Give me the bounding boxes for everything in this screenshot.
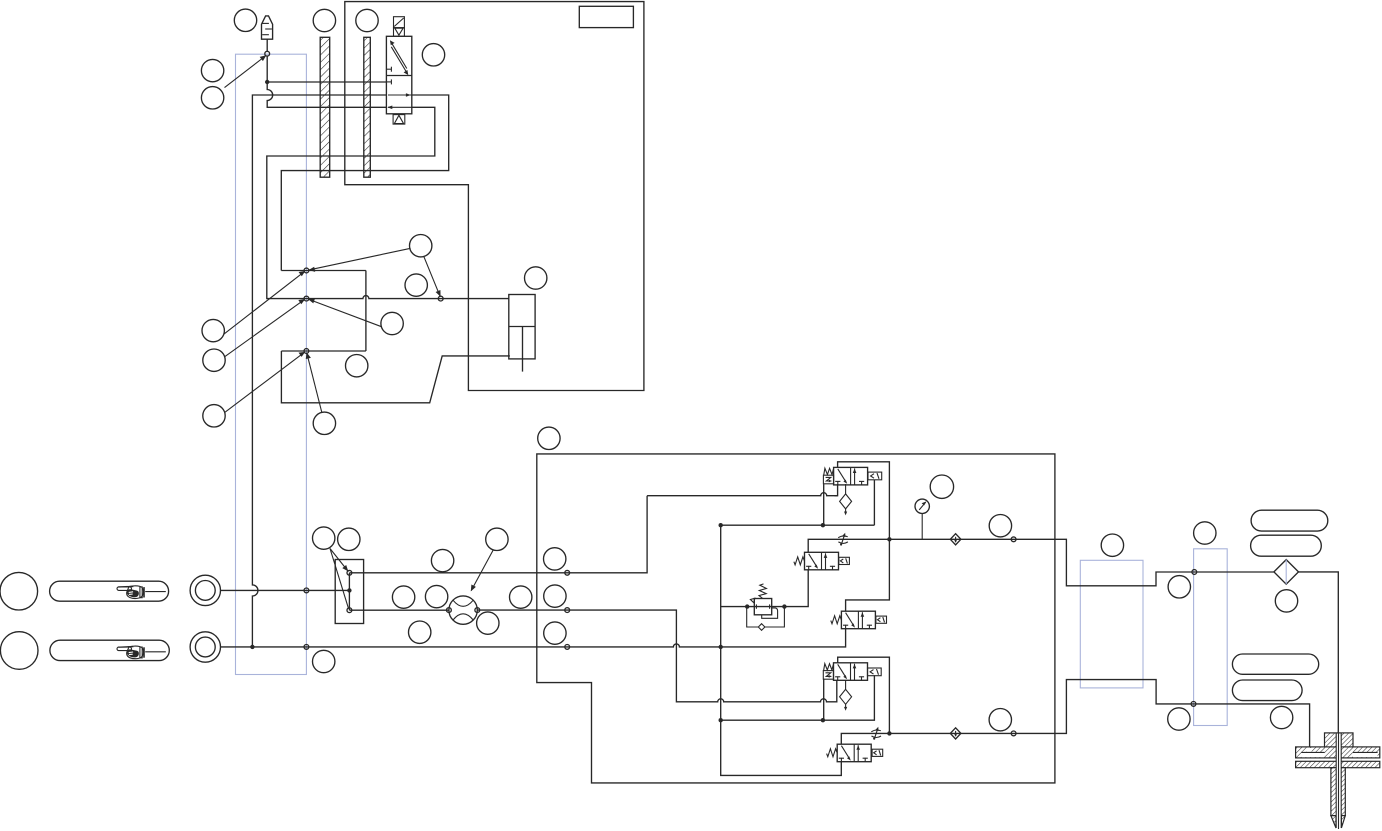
balloon C2 [338,528,360,550]
hand pointer line row2 [145,651,166,653]
wire rowB: HV1 bottom to rotary joint [349,609,449,611]
throttle T1 [838,533,848,546]
hand icon row1 [117,586,145,599]
wire row3: ring P2 to valve V3 port (with jump, junction dots) [221,629,846,647]
tool flange plate [1296,747,1380,758]
balloon E1 entry rowA [544,548,566,570]
wire: pilot bus lower y720 [721,675,875,720]
leader: balloon L2 to node n3 [225,300,304,357]
balloon E2 entry rowB [544,585,566,607]
wire: valve V1 spring-box drop [823,484,825,525]
leader: balloon B5 to node n4 [307,353,322,413]
balloon B2 [405,274,427,296]
balloon C5 [392,586,414,608]
valve V3 [841,611,875,629]
balloon C9 [409,621,431,643]
leader: balloon B3 to node n3 [309,299,382,326]
node n4 on ledge y351 [304,349,309,354]
wire: U1 out right y107 loop to cylinder line [267,107,509,298]
balloon C7 [510,586,532,608]
pill mid1 [1232,654,1318,674]
valve V5 feed wire with throttle [841,733,889,744]
node HV1 bottom [347,608,352,613]
junction dot y720 mid [821,718,825,722]
wire: V1 top to bus [838,462,890,611]
check diamond D2 on wire B [950,728,961,739]
balloon right frame top [1194,522,1216,544]
bulkhead bar 1 (hatched) [320,37,330,177]
label plate rectangle top-right [579,6,633,27]
junction dot row3/block riser [719,645,723,649]
wire: port line y82 to valve [267,81,386,83]
tool bore (white channel) [1336,734,1341,829]
nozzle tool bottom right [1296,733,1380,829]
balloon wireB [989,709,1011,731]
manifold block outline [537,454,1055,783]
tool base plate [1296,761,1380,767]
group frame left (blue) [236,54,307,674]
node n2 on ledge y270 [304,268,309,273]
big circle row2 [0,632,38,670]
mechanism profile: lower step and slant to cylinder line [281,351,510,403]
leader: balloon L3 to node n4 [225,353,304,413]
balloon C1 [313,527,335,549]
balloon A5 [201,59,223,81]
lever linkage lines of HV1 [330,549,348,572]
button pill row1 [50,581,169,601]
junction dot x889/y733 [887,731,891,735]
balloon filter [1275,590,1297,612]
wire: pilot bus upper y525 [721,524,875,526]
port ring P1 (double circle) [190,575,220,605]
wire rowA into valve V1 port (jump over x823.7) [835,484,838,496]
balloon B3 [381,312,403,334]
leader: balloon C4 to rotary R1 [471,550,493,591]
node on wire A right [1192,570,1197,575]
pill top2 [1251,535,1322,556]
pill top1 [1251,510,1328,531]
balloon B1 [410,235,432,257]
balloon A6 [201,87,223,109]
machine boundary outline (L-shaped) [345,2,644,391]
node on blue frame row1 [304,588,309,593]
group frame mid-right (blue) [1080,560,1143,688]
valve V4 (3/2 with spring-box) [834,663,868,681]
port ring P2 (double circle) [190,632,220,662]
balloon L2 [203,349,225,371]
bulkhead bar 2 (hatched) [364,37,371,177]
balloon D1 block top [538,427,560,449]
valve V1 (3/2 with spring-box) [834,467,868,485]
wire: valve V1 pilot drop [873,480,875,525]
node on blue frame row3 [304,645,309,650]
leader: balloon L1 to node n2 [224,272,304,335]
balloon L1 [202,319,224,341]
junction dot d1 [265,80,269,84]
node n1 (open circle) [265,51,270,56]
tool top block [1325,733,1354,747]
output wire A (y539) to right [889,539,1274,586]
balloon wireB right [1168,708,1190,730]
balloon wireA [989,515,1011,537]
wire rowA: HV1 top to block riser [349,496,647,573]
balloon A1 [234,9,256,31]
balloon E3 entry row3 [544,622,566,644]
tool bore center line [1338,734,1340,830]
valve V2 [805,552,839,570]
node on wire A [1011,537,1016,542]
wire row1: ring P1 to hand valve [221,589,350,591]
junction dot row3/supply riser [250,645,254,649]
throttle T2 [871,727,881,740]
pressure gauge G1 [915,499,929,539]
node n3 on wire y298 [304,296,309,301]
node block entry rowA [565,570,570,575]
rotary joint R1 [449,596,477,624]
balloon C6 [425,585,447,607]
return spring box of U1 [393,115,405,125]
wire: U1 out right y95 loop to lower left [281,95,448,271]
wire: regulator feed y606 [721,570,809,607]
cylinder C1 [509,295,535,372]
tool stem [1331,768,1345,816]
wire rowB: rotary to block [477,610,837,702]
hand icon row2 [117,646,145,659]
balloon A3 [356,9,378,31]
node on wire B [1011,731,1016,736]
node HV1 top [347,570,352,575]
balloon C4 [486,528,508,550]
junction dot x889/y539 [887,537,891,541]
junction dot regulator left [745,604,749,608]
wire: node down with jump over y95, corner to exhaust port line [267,56,386,107]
junction dot riser/y720 [719,718,723,722]
pressure regulator PR1 [747,584,785,630]
balloon C10 [313,650,335,672]
node n5 on wire y298 right [438,296,443,301]
internal port line of HV1 [348,573,350,610]
balloon L3 [203,405,225,427]
balloon C3 [431,549,453,571]
wire: center riser x720 [721,525,842,775]
hand lever valve HV1 [335,560,363,624]
junction dot y525 mid [821,523,825,527]
mechanism profile: vertical x366 [365,271,367,352]
balloon gray box [1101,534,1123,556]
balloon gauge [930,475,953,498]
junction dot regulator right [782,604,786,608]
node on wire B right [1191,702,1196,707]
button pill row2 [50,640,169,660]
wire: valve V4 spring-box drop [823,679,825,721]
wire: filter to nozzle drop [1299,572,1339,733]
balloon B4 [346,355,368,377]
balloon A2 [313,9,335,31]
node block entry rowB [565,608,570,613]
balloon A4 [422,44,444,66]
mechanism profile: ledge y351 [281,350,366,352]
leader: balloon B1 to node n2 [309,248,411,270]
big circle row1 [0,572,38,610]
directional valve U1 (4/2, vertical) [386,36,411,114]
node R1 left [447,608,452,613]
balloon Bcyl [525,267,547,289]
leader: balloon B2 to node n5 [424,256,440,295]
node block entry row3 [565,645,570,650]
balloon B5 [313,412,335,434]
leader arrow to node n1 [225,56,267,88]
hand pointer line row1 [145,591,166,593]
group frame right (blue) [1194,549,1228,726]
node R1 right [475,608,480,613]
wire: silencer drop to node [266,39,268,51]
wire: V4 top to bus [838,657,890,733]
balloon wireA right [1168,576,1190,598]
exhaust diamond of V1 [840,494,852,516]
mechanism profile: step ledge y270 [281,270,366,272]
balloon C8 [477,612,499,634]
pill mid2 [1232,680,1302,701]
exhaust diamond of V4 [840,689,852,711]
wire: supply riser corner and line y95 to valve [252,95,386,647]
output wire B (y733) to right [889,680,1309,752]
check diamond D1 on wire A [950,534,961,545]
silencer S1 [262,16,273,39]
valve V2 (3/2) feed wire with throttle [808,539,889,552]
junction dot inside HV1 [347,588,351,592]
tool stem taper [1331,816,1336,828]
tool flange slots [1301,752,1324,757]
balloon nozzle [1270,706,1292,728]
solenoid coil of U1 [394,17,405,37]
big filter diamond F1 [1274,560,1299,585]
junction dot y525 left [719,523,723,527]
valve V5 [837,744,871,762]
